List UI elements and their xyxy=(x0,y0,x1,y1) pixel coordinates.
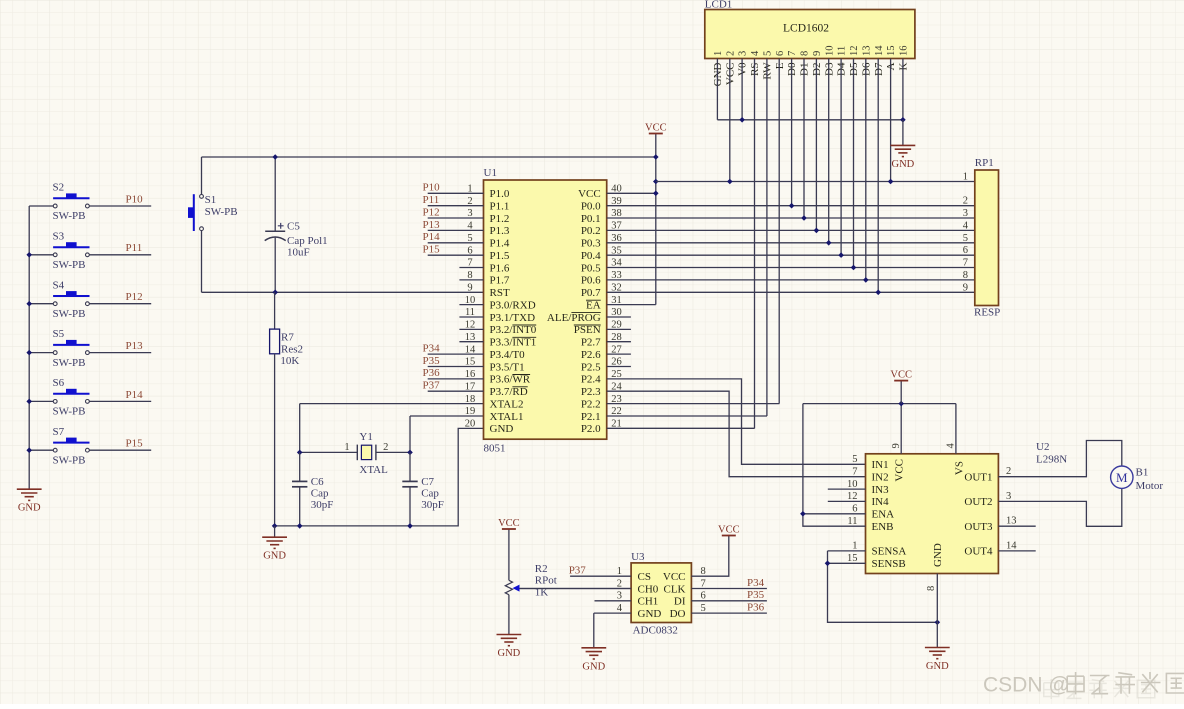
junction bus row 2 xyxy=(26,252,32,258)
wire LCD pin 12 xyxy=(853,59,855,268)
svg-text:8: 8 xyxy=(926,586,937,591)
svg-text:GND: GND xyxy=(638,608,662,620)
svg-text:S7: S7 xyxy=(53,426,65,438)
svg-text:VCC: VCC xyxy=(890,369,912,380)
ground GND buttons xyxy=(17,489,42,500)
wire S2 to net P10 xyxy=(89,205,151,207)
svg-text:5: 5 xyxy=(701,603,706,614)
wire OUT3 stub xyxy=(998,525,1035,527)
junction D4 P0.4 xyxy=(838,252,844,258)
svg-text:C5: C5 xyxy=(287,221,300,233)
svg-text:SENSB: SENSB xyxy=(872,558,906,570)
svg-text:DO: DO xyxy=(670,608,686,620)
wire LCD pin 6 xyxy=(778,59,780,404)
svg-text:4: 4 xyxy=(617,603,623,614)
svg-text:GND: GND xyxy=(926,661,949,672)
svg-text:P1.5: P1.5 xyxy=(490,250,510,262)
svg-text:M: M xyxy=(1116,470,1128,485)
svg-text:14: 14 xyxy=(1006,540,1017,551)
wire S7 to net P15 xyxy=(89,449,151,451)
svg-text:3: 3 xyxy=(1006,491,1011,502)
capacitor C7 xyxy=(402,452,444,526)
svg-text:P3.4/T0: P3.4/T0 xyxy=(490,349,526,361)
VCC power U3 xyxy=(722,535,736,537)
U1 left pin wires xyxy=(428,192,484,194)
resistor R7 xyxy=(270,292,303,526)
svg-text:P14: P14 xyxy=(126,389,144,401)
junction LCD A xyxy=(888,179,894,185)
U1 right stub wires xyxy=(607,316,631,318)
ground GND U2 xyxy=(925,648,950,659)
svg-text:2: 2 xyxy=(725,51,736,56)
wire LCD pin 15 xyxy=(890,59,892,182)
wire SENS to gnd xyxy=(828,551,938,622)
svg-text:8: 8 xyxy=(800,51,811,56)
svg-text:RPot: RPot xyxy=(535,575,557,587)
wire U2 VCC VS top xyxy=(803,403,956,405)
svg-text:8: 8 xyxy=(701,566,706,577)
svg-text:DI: DI xyxy=(674,596,686,608)
junction U2 VCC xyxy=(898,401,904,407)
wire LCD gnd line xyxy=(717,119,903,121)
wire LCD pin 10 xyxy=(828,59,830,243)
wire XTAL1 pin19 xyxy=(410,415,484,417)
wire CH0 from R2 xyxy=(516,588,632,590)
svg-text:GND: GND xyxy=(498,648,521,659)
wire to LCD ground xyxy=(902,120,904,146)
wire VCC riser to EA xyxy=(655,134,657,305)
svg-text:9: 9 xyxy=(467,283,472,294)
svg-text:16: 16 xyxy=(465,369,476,380)
junction D1 P0.1 xyxy=(801,215,807,221)
junction ENA xyxy=(800,511,806,517)
wire P2.2 to LCD E xyxy=(607,403,780,405)
svg-text:P3.1/TXD: P3.1/TXD xyxy=(490,312,536,324)
svg-text:6: 6 xyxy=(701,591,706,602)
svg-text:9: 9 xyxy=(963,282,968,293)
wire CS P37 xyxy=(570,575,631,577)
junction U2 gnd xyxy=(935,620,941,626)
svg-text:P15: P15 xyxy=(126,438,144,450)
VCC power R2 xyxy=(502,528,516,530)
junction bus row 3 xyxy=(26,301,32,307)
wire LCD pin 8 xyxy=(803,59,805,219)
svg-text:20: 20 xyxy=(465,419,476,430)
wire GND pin4 xyxy=(594,612,631,614)
svg-text:SW-PB: SW-PB xyxy=(53,406,86,418)
svg-text:XTAL2: XTAL2 xyxy=(490,398,524,410)
svg-text:5: 5 xyxy=(763,51,774,56)
wire U3 gnd riser xyxy=(593,613,595,648)
svg-text:4: 4 xyxy=(946,443,957,449)
svg-text:IN4: IN4 xyxy=(872,496,890,508)
svg-text:3: 3 xyxy=(963,208,968,219)
svg-text:CH0: CH0 xyxy=(638,583,659,595)
capacitor C5 xyxy=(265,157,328,292)
svg-text:S4: S4 xyxy=(53,279,65,291)
wire bus to S3 xyxy=(29,254,53,256)
svg-text:P35: P35 xyxy=(747,589,765,601)
svg-text:P12: P12 xyxy=(126,291,143,303)
svg-text:18: 18 xyxy=(465,394,476,405)
junction D6 P0.6 xyxy=(863,277,869,283)
svg-text:P0.4: P0.4 xyxy=(581,250,601,262)
adc U3 ADC0832 xyxy=(631,551,691,637)
junction bus row 6 xyxy=(26,447,32,453)
junction rail R7 xyxy=(272,523,278,529)
svg-text:10K: 10K xyxy=(280,355,299,367)
wires P0.0-P0.7 to RP1 xyxy=(607,205,975,207)
wire VCC rail top xyxy=(202,156,656,158)
svg-text:P36: P36 xyxy=(423,367,441,379)
svg-text:VCC: VCC xyxy=(663,571,686,583)
junction VCC S1 rail xyxy=(653,154,659,160)
svg-text:14: 14 xyxy=(874,45,885,56)
junction K gnd xyxy=(900,117,906,123)
svg-text:VCC: VCC xyxy=(498,518,520,529)
svg-text:P1.2: P1.2 xyxy=(490,213,510,225)
junction rail C6 xyxy=(297,523,303,529)
svg-text:P35: P35 xyxy=(423,355,441,367)
wire S1 bottom xyxy=(201,231,203,293)
svg-text:ALE/PROG: ALE/PROG xyxy=(547,312,601,324)
svg-text:RESP: RESP xyxy=(974,307,1000,319)
svg-text:P3.5/T1: P3.5/T1 xyxy=(490,361,525,373)
svg-text:RP1: RP1 xyxy=(975,157,994,169)
motor driver U2 L298N xyxy=(866,441,1068,574)
svg-text:13: 13 xyxy=(1006,516,1017,527)
wire bus to S5 xyxy=(29,352,53,354)
op-amp U1 8051 microcontroller xyxy=(484,167,607,455)
svg-text:ADC0832: ADC0832 xyxy=(633,625,678,637)
svg-text:2: 2 xyxy=(383,442,388,453)
wire bus to S7 xyxy=(29,449,53,451)
svg-text:Cap: Cap xyxy=(421,488,439,500)
svg-text:10: 10 xyxy=(847,479,858,490)
svg-text:P2.4: P2.4 xyxy=(581,374,601,386)
svg-text:9: 9 xyxy=(812,51,823,56)
wire LCD pin 3 xyxy=(741,59,743,120)
junction D0 P0.0 xyxy=(789,203,795,209)
svg-text:R2: R2 xyxy=(535,563,548,575)
svg-text:P2.5: P2.5 xyxy=(581,361,601,373)
switch S4 SW-PB xyxy=(53,279,90,320)
svg-text:12: 12 xyxy=(847,491,858,502)
motor B1 xyxy=(1111,466,1164,492)
svg-text:S1: S1 xyxy=(205,194,217,206)
switch S6 SW-PB xyxy=(53,377,90,418)
svg-text:E: E xyxy=(774,62,786,69)
svg-text:SW-PB: SW-PB xyxy=(53,259,86,271)
svg-text:11: 11 xyxy=(837,46,848,56)
svg-text:2: 2 xyxy=(617,578,622,589)
svg-text:P2.2: P2.2 xyxy=(581,398,601,410)
svg-text:P2.0: P2.0 xyxy=(581,423,601,435)
switch S7 SW-PB xyxy=(53,426,90,467)
wire LCD pin 7 xyxy=(791,59,793,206)
svg-text:IN3: IN3 xyxy=(872,484,890,496)
svg-text:P15: P15 xyxy=(423,244,441,256)
svg-text:7: 7 xyxy=(787,51,798,56)
svg-text:CLK: CLK xyxy=(664,583,686,595)
svg-text:OUT1: OUT1 xyxy=(964,472,992,484)
svg-text:15: 15 xyxy=(886,46,897,57)
svg-text:ENB: ENB xyxy=(872,521,894,533)
svg-text:P11: P11 xyxy=(423,194,440,206)
wire button ground bus xyxy=(28,206,30,489)
wire bus to S2 xyxy=(29,205,53,207)
wire LCD pin 1 xyxy=(716,59,718,120)
svg-text:S2: S2 xyxy=(53,182,65,194)
junction C5 top xyxy=(272,154,278,160)
svg-text:P3.6/WR: P3.6/WR xyxy=(490,374,531,386)
svg-text:P14: P14 xyxy=(423,231,441,243)
svg-text:VCC: VCC xyxy=(894,459,906,482)
capacitor C6 xyxy=(292,452,333,526)
junction rail C7 xyxy=(407,523,413,529)
svg-text:R7: R7 xyxy=(281,332,294,344)
wire LCD pin 5 xyxy=(766,59,768,417)
svg-text:2: 2 xyxy=(963,196,968,207)
junction D5 P0.5 xyxy=(851,265,857,271)
svg-text:P10: P10 xyxy=(423,182,441,194)
junction bus row 4 xyxy=(26,350,32,356)
svg-text:S3: S3 xyxy=(53,231,65,243)
svg-text:GND: GND xyxy=(582,661,605,672)
wire LCD pin 11 xyxy=(840,59,842,256)
wire LCD pin 14 xyxy=(877,59,879,293)
svg-text:15: 15 xyxy=(847,553,858,564)
wire CH1 stub xyxy=(595,600,632,602)
junction C5 bottom RST xyxy=(272,290,278,296)
svg-text:U3: U3 xyxy=(631,551,645,563)
svg-text:OUT2: OUT2 xyxy=(964,496,992,508)
svg-text:SENSA: SENSA xyxy=(872,546,907,558)
wire R2 bottom xyxy=(508,595,510,635)
wire to ground xyxy=(274,526,276,537)
connector LCD1 LCD1602 xyxy=(705,0,915,59)
wire pin40 VCC xyxy=(607,192,656,194)
svg-text:8051: 8051 xyxy=(484,443,506,455)
wire R2 top xyxy=(508,529,510,580)
svg-text:XTAL1: XTAL1 xyxy=(490,411,524,423)
svg-text:SW-PB: SW-PB xyxy=(53,210,86,222)
svg-text:XTAL: XTAL xyxy=(359,464,388,476)
wire SENSB xyxy=(828,562,866,564)
svg-text:3: 3 xyxy=(467,208,472,219)
svg-text:P36: P36 xyxy=(747,602,765,614)
svg-text:P1.3: P1.3 xyxy=(490,225,510,237)
svg-text:SW-PB: SW-PB xyxy=(53,357,86,369)
VCC power U2 xyxy=(894,380,908,382)
svg-text:5: 5 xyxy=(852,454,857,465)
svg-text:CSDN @: CSDN @ xyxy=(983,674,1070,697)
svg-text:OUT3: OUT3 xyxy=(964,521,993,533)
junction XTAL right xyxy=(407,450,413,456)
wire P2.1 to LCD RW xyxy=(607,415,767,417)
svg-text:GND: GND xyxy=(18,503,41,514)
junction LCD VCC xyxy=(727,179,733,185)
svg-text:IN1: IN1 xyxy=(872,459,889,471)
wire bus to S4 xyxy=(29,303,53,305)
svg-text:VCC: VCC xyxy=(645,122,667,133)
svg-text:P11: P11 xyxy=(126,242,143,254)
switch S1 SW-PB xyxy=(188,194,238,231)
wire ground rail to pin20 xyxy=(275,428,484,526)
svg-text:P13: P13 xyxy=(423,219,441,231)
wire S6 to net P14 xyxy=(89,400,151,402)
svg-text:VCC: VCC xyxy=(578,188,601,200)
svg-text:LCD1602: LCD1602 xyxy=(783,23,829,35)
svg-text:RST: RST xyxy=(490,287,510,299)
svg-text:P1.4: P1.4 xyxy=(490,238,510,250)
junction D2 P0.2 xyxy=(814,228,820,234)
svg-text:GND: GND xyxy=(932,543,944,567)
svg-text:P0.0: P0.0 xyxy=(581,201,601,213)
svg-text:4: 4 xyxy=(750,50,761,56)
svg-text:6: 6 xyxy=(467,245,472,256)
wire S3 to net P11 xyxy=(89,254,151,256)
svg-text:EA: EA xyxy=(586,299,601,311)
svg-text:P1.0: P1.0 xyxy=(490,188,510,200)
wire P34 xyxy=(691,588,767,590)
svg-text:7: 7 xyxy=(467,258,472,269)
svg-text:11: 11 xyxy=(847,516,857,527)
wire VCC pin8 xyxy=(691,536,728,577)
svg-text:CH1: CH1 xyxy=(638,596,659,608)
wire EA to VCC xyxy=(607,304,656,306)
junction SENSB xyxy=(825,561,831,567)
wire OUT4 stub xyxy=(998,550,1035,552)
svg-text:P3.0/RXD: P3.0/RXD xyxy=(490,299,536,311)
wire P36 xyxy=(691,612,767,614)
svg-text:Cap Pol1: Cap Pol1 xyxy=(287,235,328,247)
ground GND U3 xyxy=(581,648,606,659)
svg-text:SW-PB: SW-PB xyxy=(53,454,86,466)
svg-text:8: 8 xyxy=(963,270,968,281)
wire R2 wiper to CH0 xyxy=(520,588,632,590)
svg-text:7: 7 xyxy=(701,578,706,589)
svg-text:6: 6 xyxy=(775,51,786,56)
svg-text:7: 7 xyxy=(852,466,857,477)
svg-text:13: 13 xyxy=(861,46,872,57)
svg-text:2: 2 xyxy=(467,196,472,207)
wire S1 top xyxy=(201,157,203,195)
svg-text:S5: S5 xyxy=(53,328,65,340)
svg-text:3: 3 xyxy=(617,591,622,602)
svg-text:Cap: Cap xyxy=(311,488,329,500)
junction bus row 5 xyxy=(26,399,32,405)
svg-text:P37: P37 xyxy=(423,380,441,392)
svg-text:P0.3: P0.3 xyxy=(581,238,601,250)
svg-text:P0.2: P0.2 xyxy=(581,225,601,237)
svg-text:VCC: VCC xyxy=(718,524,740,535)
svg-text:P34: P34 xyxy=(747,577,765,589)
svg-text:4: 4 xyxy=(963,220,969,231)
svg-text:10uF: 10uF xyxy=(287,247,310,259)
wire OUT1 to motor xyxy=(998,441,1121,477)
svg-text:P0.5: P0.5 xyxy=(581,262,601,274)
svg-text:SW-PB: SW-PB xyxy=(53,308,86,320)
svg-text:10: 10 xyxy=(465,295,476,306)
svg-text:19: 19 xyxy=(465,406,476,417)
svg-text:17: 17 xyxy=(465,381,476,392)
svg-text:P1.6: P1.6 xyxy=(490,262,510,274)
VCC power top xyxy=(649,133,663,135)
wire P2.4 to IN1 xyxy=(607,379,866,464)
wire VCC to ENB xyxy=(803,404,866,527)
svg-text:U2: U2 xyxy=(1036,441,1049,453)
svg-text:P37: P37 xyxy=(569,565,587,577)
svg-text:9: 9 xyxy=(891,443,902,448)
svg-text:11: 11 xyxy=(465,307,475,318)
svg-text:P0.1: P0.1 xyxy=(581,213,601,225)
svg-text:3: 3 xyxy=(738,51,749,56)
svg-text:C6: C6 xyxy=(311,476,324,488)
svg-text:U1: U1 xyxy=(484,167,497,179)
svg-text:2: 2 xyxy=(1006,466,1011,477)
svg-text:P34: P34 xyxy=(423,343,441,355)
wire P2.0 to LCD RS xyxy=(607,427,755,429)
wire ENA xyxy=(803,513,866,515)
wire LCD pin 2 xyxy=(729,59,731,182)
ground GND LCD xyxy=(891,145,916,156)
junction VCC pin40 xyxy=(653,191,659,197)
svg-text:1: 1 xyxy=(852,541,857,552)
svg-text:6: 6 xyxy=(963,245,968,256)
wire SENSA xyxy=(828,550,866,552)
svg-text:GND: GND xyxy=(490,423,514,435)
svg-text:1: 1 xyxy=(963,171,968,182)
svg-text:LCD1: LCD1 xyxy=(705,0,733,10)
switch S2 SW-PB xyxy=(53,182,90,223)
svg-text:P10: P10 xyxy=(126,193,144,205)
svg-text:CS: CS xyxy=(638,571,651,583)
svg-text:ENA: ENA xyxy=(872,509,895,521)
crystal Y1 XTAL xyxy=(344,431,388,476)
junction D3 P0.3 xyxy=(826,240,832,246)
svg-text:P1.1: P1.1 xyxy=(490,201,510,213)
svg-text:P3.3/INT1: P3.3/INT1 xyxy=(490,337,537,349)
wire U2 pin8 gnd xyxy=(936,574,938,648)
svg-text:P2.1: P2.1 xyxy=(581,411,601,423)
svg-text:1: 1 xyxy=(344,442,349,453)
wire LCD pin 16 xyxy=(902,59,904,120)
svg-text:IN2: IN2 xyxy=(872,472,889,484)
svg-text:P2.6: P2.6 xyxy=(581,349,601,361)
svg-text:Motor: Motor xyxy=(1136,480,1164,492)
svg-text:12: 12 xyxy=(465,320,476,331)
svg-text:14: 14 xyxy=(465,344,476,355)
wire P2.3 to IN2 xyxy=(607,391,866,477)
svg-text:4: 4 xyxy=(467,221,473,232)
svg-text:30pF: 30pF xyxy=(421,499,444,511)
potentiometer R2 RPot xyxy=(505,563,557,598)
svg-text:6: 6 xyxy=(852,504,857,515)
svg-text:12: 12 xyxy=(849,46,860,57)
junction VCC RP1 line xyxy=(653,179,659,185)
wire XTAL left node xyxy=(300,404,358,453)
svg-text:8: 8 xyxy=(467,270,472,281)
svg-text:7: 7 xyxy=(963,258,968,269)
svg-text:13: 13 xyxy=(465,332,476,343)
svg-text:P3.2/INT0: P3.2/INT0 xyxy=(490,324,537,336)
svg-text:S6: S6 xyxy=(53,377,65,389)
wire VCC to RP1 pin 1 xyxy=(656,181,975,183)
ground GND crystal xyxy=(262,537,287,548)
svg-text:P2.7: P2.7 xyxy=(581,337,601,349)
svg-text:P13: P13 xyxy=(126,340,144,352)
